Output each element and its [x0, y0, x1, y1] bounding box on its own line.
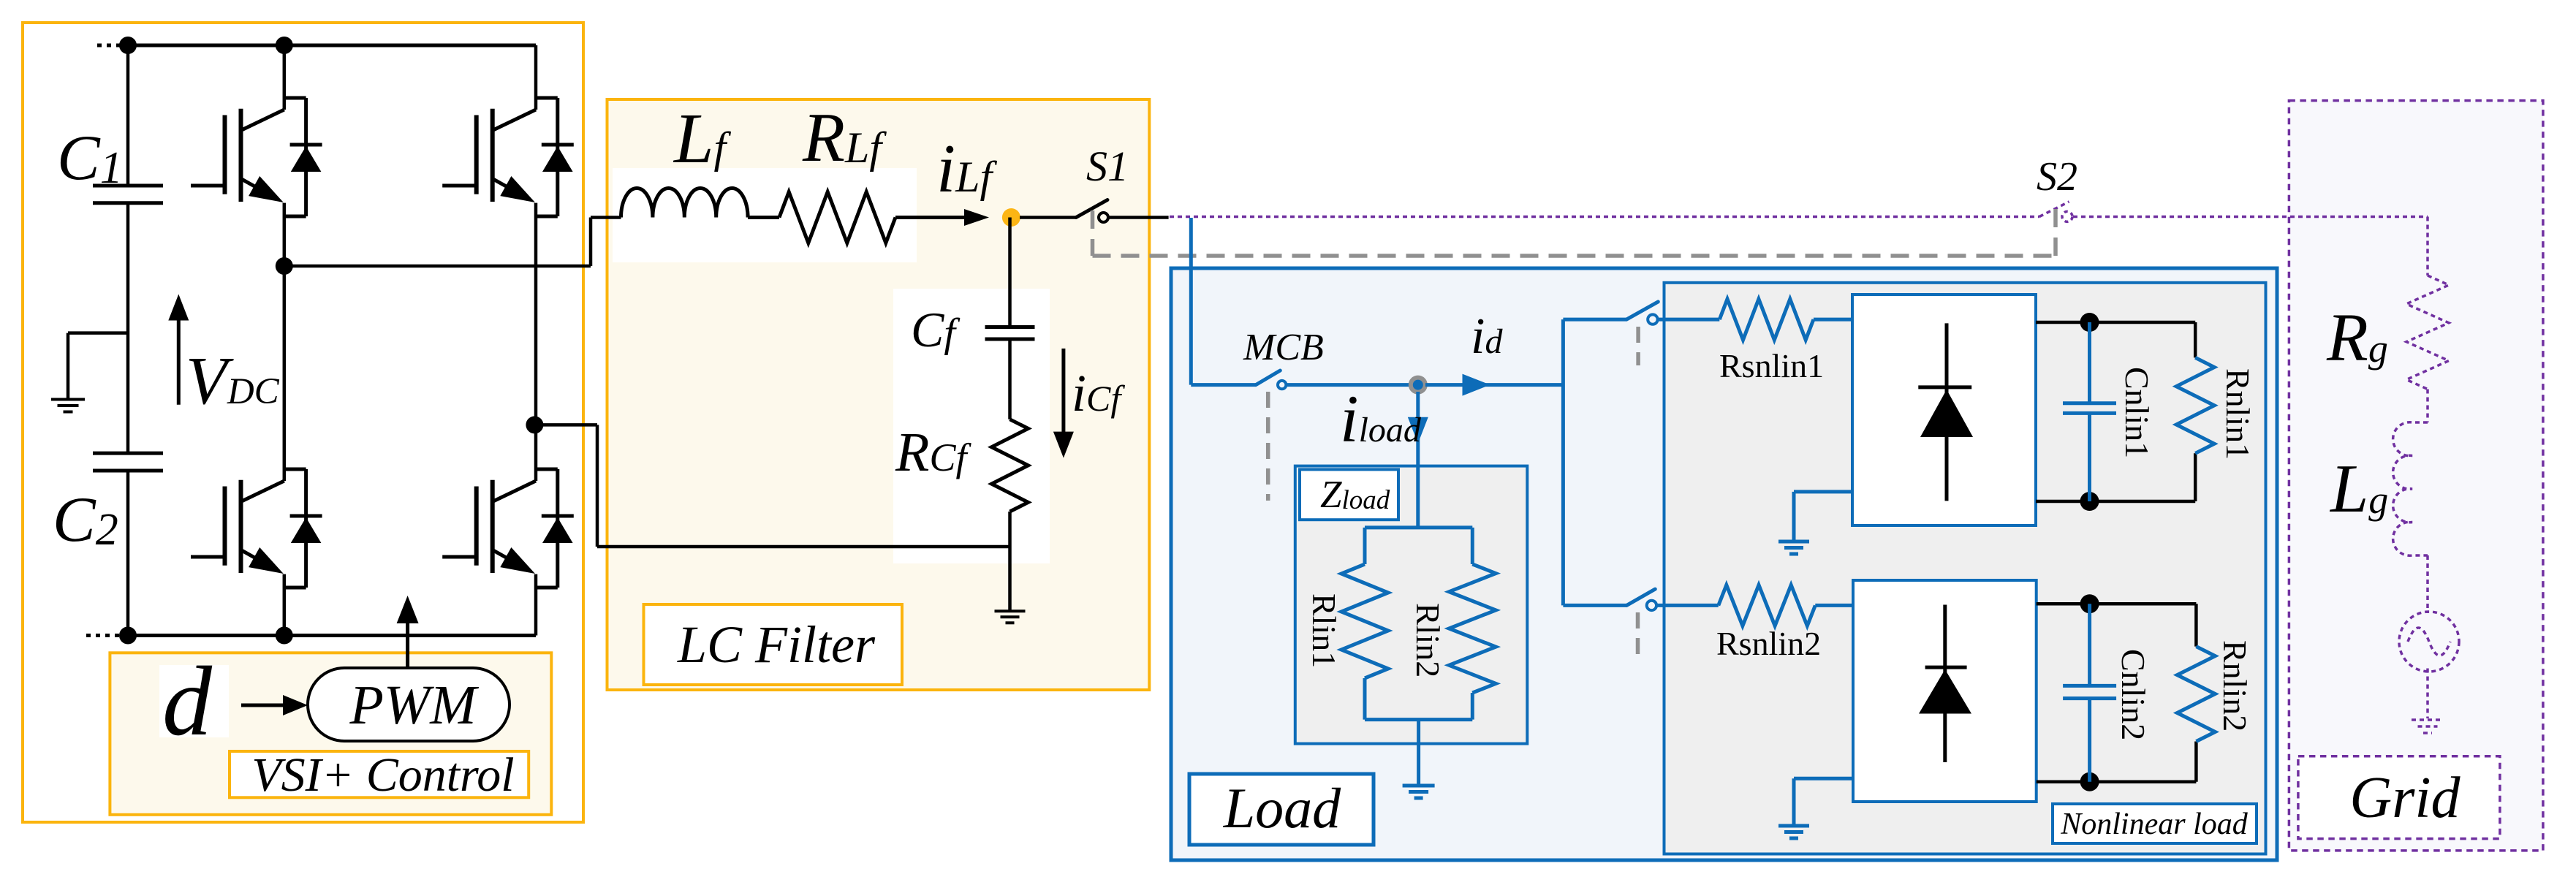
- resistor Rlin1: [1341, 564, 1388, 720]
- DC- rail wire: [128, 634, 536, 637]
- switch S1: [1076, 200, 1108, 223]
- wire Rg to Lg: [2426, 390, 2429, 423]
- linkage branch1 dashed: [1636, 327, 1640, 365]
- label Rnlin2: [2216, 640, 2254, 732]
- svg-text:Load: Load: [1223, 776, 1341, 840]
- wire phase A to filter: [284, 218, 621, 267]
- wire branch1 to switch: [1563, 318, 1626, 322]
- wire grid drop: [2426, 217, 2429, 276]
- wire rect2 ground: [1794, 778, 1853, 824]
- svg-text:Nonlinear load: Nonlinear load: [2060, 808, 2249, 841]
- VSI converter block outer box: [23, 23, 583, 822]
- linkage branch2 dashed: [1636, 612, 1640, 654]
- svg-text:d: d: [162, 647, 213, 756]
- ground grid: [2412, 720, 2444, 733]
- ground Zload: [1403, 786, 1435, 798]
- ground LC filter: [995, 611, 1026, 623]
- label Rg: [2326, 300, 2388, 376]
- rectifier box 1: [1852, 295, 2036, 525]
- VSI Control inner box: [110, 653, 551, 815]
- ground rect1: [1778, 542, 1809, 554]
- transistor Q3: [191, 266, 322, 636]
- wire phase B to filter return: [534, 425, 1009, 547]
- wire branch2 to switch: [1563, 604, 1626, 607]
- wire rect1 ground: [1794, 492, 1852, 540]
- label Lg: [2329, 451, 2388, 527]
- label S2: [2037, 154, 2077, 200]
- wire Lg to source: [2426, 555, 2429, 613]
- label Rnlin1: [2219, 368, 2257, 460]
- rectifier box 2: [1853, 580, 2037, 802]
- wire iload: [1416, 392, 1420, 528]
- transistor Q4: [442, 425, 574, 635]
- wire rect2 out top: [2037, 604, 2197, 646]
- label Zload: [1320, 474, 1390, 516]
- switch branch2: [1626, 589, 1656, 610]
- label Rlin2: [1409, 603, 1447, 677]
- white patch behind Cf RCf: [893, 289, 1050, 563]
- svg-text:Rsnlin1: Rsnlin1: [1719, 347, 1824, 384]
- svg-text:Cnlin2: Cnlin2: [2115, 649, 2152, 740]
- wire node to S1: [1020, 216, 1076, 219]
- label id: [1471, 308, 1503, 365]
- svg-text:Cf: Cf: [911, 302, 961, 357]
- DC+ rail wire: [128, 44, 536, 48]
- transistor Q1: [191, 45, 322, 266]
- LC Filter block box: [607, 99, 1150, 690]
- arrow PWM gate drive: [397, 596, 419, 668]
- label d white patch: [159, 665, 229, 737]
- resistor Rsnlin1: [1719, 299, 1814, 340]
- AC source grid: [2399, 612, 2459, 672]
- label PWM: [349, 675, 479, 736]
- wire Rsnlin1 to rectifier: [1814, 318, 1852, 322]
- diode D1: [1918, 323, 1973, 501]
- arrow iload: [1408, 417, 1428, 444]
- wire RLf to node: [895, 216, 972, 219]
- ground rect2: [1778, 826, 1809, 838]
- arrow VDC: [168, 295, 189, 405]
- DC- rail dotted stub: [86, 634, 123, 637]
- wire branch feed vertical: [1561, 319, 1565, 605]
- capacitor Cnlin1: [2063, 322, 2116, 501]
- wire rect1 out top: [2036, 322, 2195, 357]
- capacitor Cf: [985, 218, 1035, 419]
- wire MCB to node: [1287, 383, 1418, 387]
- svg-text:VSI+ Control: VSI+ Control: [251, 748, 514, 802]
- DC+ rail dotted stub: [97, 44, 124, 48]
- resistor Rnlin2: [2177, 647, 2215, 742]
- node load: [1411, 378, 1425, 392]
- wire midpoint to ground: [68, 333, 128, 398]
- resistor Rnlin1: [2176, 357, 2214, 453]
- label Rsnlin1: [1719, 347, 1824, 384]
- Nonlinear load inner box: [1664, 283, 2266, 854]
- label Grid: [2349, 766, 2461, 830]
- svg-text:Rnlin2: Rnlin2: [2216, 640, 2254, 732]
- label Cnlin2: [2115, 649, 2152, 740]
- svg-text:LC Filter: LC Filter: [677, 615, 876, 674]
- capacitor C2: [93, 453, 163, 635]
- node phase A: [276, 257, 293, 275]
- wire Rlin bottom: [1365, 720, 1472, 785]
- Load block outer box: [1171, 268, 2277, 860]
- wire S1 to load: [1109, 216, 1169, 219]
- node DC+ leg1: [276, 37, 293, 54]
- resistor RLf: [779, 192, 895, 243]
- label iCf: [1072, 364, 1125, 422]
- wire rect2 out bottom: [2037, 742, 2197, 782]
- label Nonlinear load: [2060, 808, 2249, 841]
- Grid label box: [2298, 756, 2500, 839]
- PWM block: [308, 668, 509, 741]
- wire switch2 to Rsnlin2: [1656, 604, 1719, 607]
- svg-text:Rlin1: Rlin1: [1306, 593, 1343, 668]
- capacitor Cnlin2: [2063, 604, 2116, 781]
- LC Filter label box: [644, 604, 903, 685]
- svg-text:Rlin2: Rlin2: [1409, 603, 1447, 677]
- switch branch1: [1626, 302, 1658, 324]
- resistor RCf: [992, 419, 1028, 512]
- svg-text:Grid: Grid: [2349, 766, 2461, 830]
- wire rect1 out bottom: [2036, 453, 2195, 501]
- wire Rlin top: [1365, 528, 1472, 564]
- Load label box: [1189, 774, 1374, 845]
- Zload inner box: [1295, 466, 1528, 744]
- wire Rsnlin2 to rectifier: [1815, 604, 1853, 607]
- Zload label box: [1300, 469, 1398, 520]
- resistor Rg: [2406, 276, 2449, 390]
- label RCf: [895, 422, 971, 483]
- label VSI+ Control: [251, 748, 514, 802]
- linkage MCB dashed: [1266, 392, 1270, 501]
- arrow iCf: [1053, 349, 1074, 458]
- label Lf: [673, 99, 732, 178]
- wire RCf to ground: [1008, 512, 1012, 610]
- switch S2 blade: [2039, 202, 2072, 221]
- transistor Q2: [442, 45, 574, 425]
- label LC Filter: [677, 615, 876, 674]
- node DC- leg1: [276, 627, 293, 645]
- label C2: [53, 485, 118, 555]
- label d: [162, 647, 213, 756]
- label MCB: [1243, 327, 1324, 368]
- node phase B: [526, 416, 543, 433]
- wire purple S1 to S2: [1170, 216, 2039, 219]
- node rect2 bottom: [2080, 772, 2099, 791]
- Grid block dashed box: [2289, 101, 2543, 851]
- svg-text:MCB: MCB: [1243, 327, 1324, 368]
- arrow id: [1463, 374, 1490, 396]
- wire purple S2 to grid: [2073, 216, 2428, 219]
- node rect1 bottom: [2080, 492, 2099, 511]
- svg-text:Rnlin1: Rnlin1: [2219, 368, 2257, 460]
- wire source to ground: [2426, 669, 2429, 719]
- label iload: [1340, 381, 1422, 456]
- label C1: [57, 123, 123, 194]
- svg-text:PWM: PWM: [349, 675, 479, 736]
- node DC- C2: [119, 627, 137, 645]
- label VDC: [186, 343, 280, 419]
- white patch behind Lf RLf: [613, 168, 917, 262]
- label Rlin1: [1306, 593, 1343, 668]
- label Load: [1223, 776, 1341, 840]
- label Rsnlin2: [1716, 625, 1821, 662]
- switch MCB: [1256, 371, 1286, 389]
- resistor Rsnlin2: [1719, 585, 1816, 626]
- wire Lf to RLf: [748, 216, 779, 219]
- label iLf: [936, 131, 997, 207]
- inductor Lf: [621, 188, 749, 217]
- arrow iLf: [964, 209, 989, 226]
- svg-text:S2: S2: [2037, 154, 2077, 200]
- wire S1 to MCB drop: [1189, 218, 1193, 385]
- linkage S1 dashed: [1093, 209, 2056, 256]
- diode D2: [1919, 605, 1971, 763]
- ground VSI: [51, 400, 85, 412]
- svg-text:Rsnlin2: Rsnlin2: [1716, 625, 1821, 662]
- node DC+ C1: [119, 37, 137, 54]
- label Cnlin1: [2118, 367, 2156, 458]
- label Cf: [911, 302, 961, 357]
- node filter output: [1002, 208, 1020, 227]
- label S1: [1086, 143, 1129, 190]
- svg-text:Cnlin1: Cnlin1: [2118, 367, 2156, 458]
- Nonlinear load label box: [2053, 804, 2257, 843]
- arrow d to PWM: [241, 695, 308, 715]
- wire id: [1425, 383, 1563, 387]
- label RLf: [802, 99, 887, 176]
- resistor Rlin2: [1449, 564, 1496, 720]
- node rect1 top: [2080, 313, 2099, 332]
- capacitor C1: [93, 45, 163, 453]
- inductor Lg: [2393, 422, 2428, 555]
- wire switch1 to Rsnlin1: [1658, 318, 1720, 322]
- svg-text:S1: S1: [1086, 143, 1129, 190]
- node rect2 top: [2080, 594, 2099, 613]
- wire to MCB: [1191, 383, 1256, 387]
- VSI+ Control label box: [230, 751, 529, 797]
